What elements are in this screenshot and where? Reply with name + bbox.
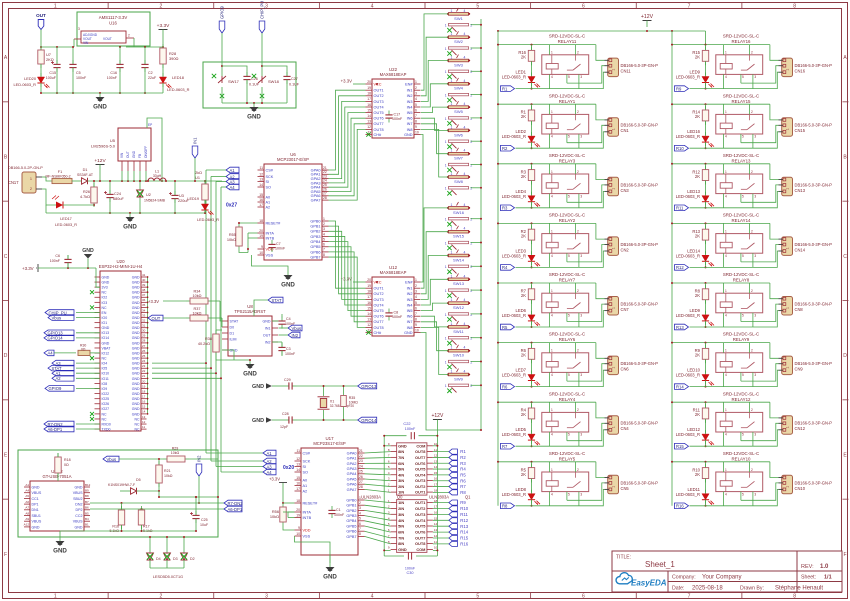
svg-text:+3.3V: +3.3V [22, 266, 34, 271]
wire RELAY14 drive [690, 266, 753, 268]
svg-text:GND: GND [398, 547, 407, 552]
svg-text:RELAY14: RELAY14 [732, 218, 752, 223]
svg-text:5: 5 [568, 135, 570, 139]
input net flag R13 [675, 324, 689, 330]
svg-text:ESP32-H2-MINI-1U-H4: ESP32-H2-MINI-1U-H4 [99, 264, 143, 269]
resistor R18 0R [55, 453, 71, 481]
svg-text:R38: R38 [205, 337, 212, 341]
+12V power symbol [641, 14, 654, 27]
svg-text:2: 2 [751, 289, 753, 293]
resistor R5 2K [521, 462, 535, 483]
svg-text:R14: R14 [460, 530, 468, 535]
svg-text:2K: 2K [695, 472, 700, 477]
svg-text:IO25: IO25 [102, 397, 110, 401]
svg-text:9: 9 [415, 125, 417, 129]
svg-text:1: 1 [54, 4, 57, 10]
resistor R16 5.1k [110, 503, 125, 533]
svg-text:32: 32 [142, 318, 146, 322]
svg-text:8: 8 [323, 253, 325, 257]
input net flag R1 [501, 86, 515, 92]
svg-text:2: 2 [577, 289, 579, 293]
wire regulator output [119, 38, 164, 48]
switch SW8 [445, 171, 473, 195]
svg-text:R29: R29 [172, 447, 179, 451]
svg-text:VBAT: VBAT [102, 346, 112, 350]
svg-text:FB: FB [138, 154, 142, 158]
svg-text:3IN: 3IN [398, 512, 404, 517]
wire SW8 to bus [471, 187, 483, 189]
svg-text:U3: U3 [179, 194, 184, 198]
svg-text:SW10: SW10 [453, 353, 465, 358]
svg-text:5: 5 [359, 517, 361, 521]
IC Q1 ULN2803A driver [388, 495, 471, 553]
svg-text:3V3: 3V3 [102, 286, 108, 290]
ground USB [53, 537, 67, 555]
svg-text:CN7: CN7 [621, 307, 630, 312]
svg-text:2: 2 [470, 218, 472, 222]
fuse F1 MF-NSMF050-2 [42, 170, 72, 184]
svg-text:34: 34 [142, 308, 146, 312]
svg-text:GPB0: GPB0 [346, 498, 356, 502]
svg-text:GPA0: GPA0 [347, 451, 357, 455]
svg-text:CC2: CC2 [75, 514, 82, 518]
net flag A6-DP1 bottom [224, 506, 243, 512]
switch SW4 [445, 78, 473, 102]
svg-text:GPB3: GPB3 [346, 514, 356, 518]
wire pullup node [158, 496, 219, 498]
net flag GPIO9 [219, 6, 225, 33]
svg-text:R17: R17 [143, 525, 150, 529]
connector CN7 DB166-5.0-3P-GN-P [605, 297, 659, 316]
LED LED7 LED-0603_R [502, 359, 540, 387]
connector USB2 GT-USB-7051A [24, 469, 91, 531]
svg-text:C16: C16 [110, 71, 117, 75]
capacitor C24 680uF [104, 180, 124, 214]
svg-text:C15: C15 [49, 71, 56, 75]
svg-text:SRD-12VDC-SL-C: SRD-12VDC-SL-C [723, 213, 759, 218]
IC U17 MCP23S17-E/SP [295, 436, 365, 555]
svg-text:2K: 2K [695, 174, 700, 179]
svg-text:11: 11 [259, 166, 263, 170]
svg-text:GPB5: GPB5 [310, 245, 320, 249]
relay RELAY14 [716, 213, 763, 254]
svg-text:GPA6: GPA6 [347, 483, 357, 487]
LED LED5 LED-0603_R [502, 419, 540, 447]
wire RELAY7 top rail [497, 282, 596, 284]
svg-text:RELAY6: RELAY6 [559, 337, 576, 342]
svg-text:6: 6 [582, 594, 585, 600]
svg-text:OUT2: OUT2 [415, 484, 426, 489]
svg-text:DN1: DN1 [32, 508, 39, 512]
wire RELAY9 to connector [741, 343, 779, 387]
net flag A6-DP1 to U20 [44, 426, 100, 432]
svg-text:IN4: IN4 [407, 105, 413, 109]
svg-text:2: 2 [577, 110, 579, 114]
svg-text:14: 14 [259, 183, 263, 187]
wire SW10 to bus [471, 361, 483, 363]
wire RELAY10 to connector [741, 462, 779, 506]
svg-text:5: 5 [742, 254, 744, 258]
svg-text:DB166-5.0-3P-GN-P: DB166-5.0-3P-GN-P [795, 123, 833, 128]
svg-text:CN5: CN5 [621, 486, 630, 491]
power +12V to relay drivers [431, 413, 443, 437]
relay RELAY1 [542, 93, 589, 134]
LED LED18 LED-0603_R [159, 64, 189, 93]
svg-text:DB166-5.0-3P-GN-P: DB166-5.0-3P-GN-P [795, 302, 833, 307]
wire U6 INTA INTB stubs [247, 233, 258, 253]
svg-text:INTB: INTB [303, 516, 312, 520]
IC U6 MCP23017-E/SP [258, 152, 329, 260]
capacitor C27 0.1UF [262, 66, 300, 103]
svg-text:17: 17 [367, 97, 371, 101]
resistor R28 390 [160, 44, 179, 68]
LED LED8 LED-0603_R [502, 479, 540, 507]
svg-text:3: 3 [580, 433, 582, 437]
svg-text:CN9: CN9 [795, 367, 804, 372]
svg-text:2025-08-18: 2025-08-18 [692, 586, 723, 592]
svg-text:40.2kΩ: 40.2kΩ [198, 342, 210, 346]
svg-text:GND: GND [132, 316, 140, 320]
wire RELAY5 to connector [567, 462, 605, 506]
svg-text:LED-0603_R: LED-0603_R [502, 313, 526, 318]
svg-text:17: 17 [259, 203, 263, 207]
svg-text:C28: C28 [282, 412, 289, 416]
svg-text:15: 15 [259, 193, 263, 197]
svg-text:AMS1117-3.3V: AMS1117-3.3V [99, 15, 128, 20]
svg-text:GND: GND [132, 357, 140, 361]
svg-text:GPA2: GPA2 [347, 462, 357, 466]
svg-text:3: 3 [415, 290, 417, 294]
svg-text:SRD-12VDC-SL-C: SRD-12VDC-SL-C [723, 451, 759, 456]
net flag GPIO13 [358, 383, 377, 389]
net flag OUT [36, 13, 46, 30]
svg-text:IO13: IO13 [102, 331, 110, 335]
svg-text:CN2: CN2 [621, 247, 630, 252]
svg-text:INTA: INTA [303, 510, 312, 514]
switch SW9 [445, 369, 473, 393]
net flag R7-DN2 bottom [224, 500, 243, 506]
net flag CHIP_PU [259, 1, 265, 33]
svg-text:U5: U5 [110, 138, 116, 143]
svg-text:5: 5 [568, 254, 570, 258]
svg-text:A12: A12 [24, 523, 30, 527]
svg-text:CN6: CN6 [621, 367, 630, 372]
svg-text:R6: R6 [460, 478, 466, 483]
svg-text:16: 16 [142, 400, 146, 404]
svg-text:100nF: 100nF [285, 352, 296, 356]
input net flag R15 [675, 443, 689, 449]
svg-text:VBUS: VBUS [73, 520, 83, 524]
wire TVS bottom [149, 536, 185, 568]
inductor L1 33uH [147, 170, 167, 183]
svg-text:DB166-5.0-3P-GN-P: DB166-5.0-3P-GN-P [621, 421, 659, 426]
svg-text:2: 2 [751, 408, 753, 412]
net flags A1-A4 to U17 [263, 450, 276, 475]
svg-text:2: 2 [470, 94, 472, 98]
svg-text:R11: R11 [460, 512, 468, 517]
LED LED6 LED-0603_R [502, 300, 540, 328]
svg-text:OUT5: OUT5 [415, 524, 426, 529]
svg-text:40: 40 [142, 278, 146, 282]
svg-text:A6: A6 [25, 500, 29, 504]
resistor R14 2K [692, 104, 708, 125]
svg-text:LED20: LED20 [24, 76, 37, 81]
svg-text:CN4: CN4 [621, 426, 630, 431]
svg-text:Q0: Q0 [397, 495, 403, 500]
wire +12V rail horizontal [497, 30, 706, 45]
svg-text:19: 19 [296, 513, 300, 517]
wire +12V right column rail [671, 31, 673, 506]
svg-text:1: 1 [445, 187, 447, 191]
svg-text:1: 1 [612, 486, 616, 488]
svg-text:10: 10 [415, 328, 419, 332]
svg-text:6: 6 [415, 306, 417, 310]
wire RELAY7 to connector [567, 283, 605, 327]
svg-text:22: 22 [142, 369, 146, 373]
wire RELAY11 relay pins [550, 45, 583, 89]
svg-text:A0: A0 [303, 478, 308, 482]
svg-text:GPB6: GPB6 [346, 530, 356, 534]
svg-text:3: 3 [754, 75, 756, 79]
svg-text:1: 1 [725, 110, 727, 114]
svg-text:RELAY3: RELAY3 [559, 158, 576, 163]
svg-text:SW6: SW6 [454, 132, 463, 137]
svg-text:OUT4: OUT4 [374, 105, 384, 109]
svg-text:C27: C27 [291, 77, 298, 81]
svg-text:VBUS: VBUS [32, 520, 42, 524]
svg-text:SS34F-AT: SS34F-AT [77, 173, 94, 177]
svg-text:R9: R9 [676, 86, 682, 91]
svg-text:18: 18 [367, 290, 371, 294]
svg-text:2: 2 [470, 241, 472, 245]
svg-text:20: 20 [296, 508, 300, 512]
svg-text:1: 1 [612, 367, 616, 369]
svg-text:SW7: SW7 [454, 156, 463, 161]
switch SW16 [445, 202, 473, 226]
wire RELAY6 top rail [497, 342, 596, 344]
svg-text:A1: A1 [267, 451, 273, 456]
svg-text:39: 39 [142, 283, 146, 287]
svg-text:GND: GND [102, 341, 110, 345]
svg-text:GND: GND [53, 548, 67, 555]
svg-text:2K: 2K [521, 472, 526, 477]
relay RELAY4 [542, 391, 589, 432]
svg-text:R34: R34 [194, 290, 201, 294]
svg-text:18: 18 [296, 499, 300, 503]
svg-text:GND: GND [132, 336, 140, 340]
svg-text:10: 10 [415, 130, 419, 134]
svg-text:OUT3: OUT3 [374, 298, 384, 302]
capacitor C16 100nF [107, 47, 124, 94]
svg-text:1: 1 [786, 247, 790, 249]
svg-text:GND: GND [132, 306, 140, 310]
svg-text:CN3: CN3 [621, 188, 630, 193]
svg-text:R37: R37 [194, 307, 201, 311]
svg-text:5IN: 5IN [398, 524, 404, 529]
svg-text:10: 10 [259, 251, 263, 255]
svg-text:SW8: SW8 [454, 179, 463, 184]
svg-text:2: 2 [751, 468, 753, 472]
svg-text:12: 12 [296, 457, 300, 461]
svg-text:390Ω: 390Ω [169, 56, 178, 61]
svg-text:CN10: CN10 [795, 486, 806, 491]
svg-text:GND: GND [132, 150, 136, 158]
svg-text:D5: D5 [136, 478, 141, 482]
svg-text:3: 3 [580, 373, 582, 377]
svg-text:LESD5D5.0CT1G: LESD5D5.0CT1G [153, 575, 183, 579]
svg-text:GND: GND [132, 362, 140, 366]
svg-text:RELAY8: RELAY8 [733, 278, 750, 283]
switch SW11 [445, 321, 473, 345]
resistor R6 2K [521, 343, 535, 364]
capacitor C4 100nF [272, 314, 296, 329]
svg-text:D4: D4 [156, 557, 161, 561]
svg-text:MCP23017-E/SP: MCP23017-E/SP [277, 157, 309, 162]
svg-text:28: 28 [142, 339, 146, 343]
svg-text:EN#: EN# [405, 280, 413, 284]
svg-text:RELAY1: RELAY1 [559, 99, 576, 104]
svg-text:GND: GND [132, 301, 140, 305]
svg-text:OUT3: OUT3 [415, 478, 426, 483]
power +3.3V to U20 [22, 264, 100, 287]
svg-text:D3: D3 [173, 557, 178, 561]
svg-text:10kΩ: 10kΩ [227, 237, 236, 242]
svg-text:27: 27 [142, 344, 146, 348]
svg-text:R8: R8 [502, 504, 508, 509]
svg-text:14: 14 [367, 114, 371, 118]
svg-text:D2: D2 [190, 557, 195, 561]
svg-text:RELAY10: RELAY10 [732, 456, 752, 461]
capacitor U3 220uF [169, 180, 189, 214]
wire RELAY16 to connector [741, 45, 779, 89]
svg-text:Vbus: Vbus [52, 315, 62, 320]
svg-text:GPIO13: GPIO13 [361, 384, 377, 389]
svg-text:OUT8: OUT8 [374, 326, 384, 330]
svg-text:CS#: CS# [266, 168, 274, 172]
svg-text:4: 4 [371, 4, 374, 10]
svg-text:GPIO14: GPIO14 [361, 418, 377, 423]
svg-text:10kΩ: 10kΩ [193, 312, 202, 316]
svg-text:Drawn By:: Drawn By: [740, 586, 764, 592]
svg-text:IO3: IO3 [102, 301, 108, 305]
net flag IN2 vertical [196, 455, 202, 504]
svg-text:SW15: SW15 [453, 234, 465, 239]
connector CN5 DB166-5.0-3P-GN-P [605, 475, 659, 494]
wire RELAY16 relay pins [724, 45, 757, 89]
input net flag R4 [501, 265, 515, 271]
wire Q1 outputs to relay flags R9-R16 [433, 503, 449, 544]
connector CN6 DB166-5.0-3P-GN-P [605, 356, 659, 375]
wire switch grounds [222, 102, 287, 104]
svg-text:41: 41 [142, 273, 146, 277]
svg-text:0x20: 0x20 [283, 465, 294, 471]
svg-text:3: 3 [415, 92, 417, 96]
svg-text:SRD-12VDC-SL-C: SRD-12VDC-SL-C [723, 34, 759, 39]
svg-text:2K: 2K [521, 114, 526, 119]
svg-text:DB166-5.0-3P-GN-P: DB166-5.0-3P-GN-P [621, 123, 659, 128]
svg-text:DP1: DP1 [32, 503, 39, 507]
svg-text:Vbus: Vbus [292, 326, 302, 331]
wire U17 INTA INTB stubs [288, 512, 295, 518]
svg-text:OUT2: OUT2 [374, 94, 384, 98]
wire RELAY6 relay pins [550, 343, 583, 387]
svg-text:4: 4 [725, 314, 727, 318]
svg-text:37: 37 [142, 293, 146, 297]
svg-text:2: 2 [577, 170, 579, 174]
svg-text:2IN: 2IN [398, 484, 404, 489]
svg-text:OUT4: OUT4 [415, 518, 426, 523]
svg-text:Vbus: Vbus [107, 457, 117, 462]
svg-text:C22: C22 [403, 421, 410, 426]
svg-text:SW14: SW14 [453, 257, 465, 262]
relay RELAY16 [716, 34, 763, 75]
svg-text:GPB4: GPB4 [310, 240, 320, 244]
svg-text:SW11: SW11 [453, 329, 464, 334]
input net flag R10 [675, 145, 689, 151]
LED LED1 LED-0603_R [502, 61, 540, 89]
resistor U1 2k [195, 171, 208, 204]
svg-text:8: 8 [415, 318, 417, 322]
svg-text:DB166-5.0-3P-GN-P: DB166-5.0-3P-GN-P [795, 63, 833, 68]
svg-text:DB166-5.0-3P-GN-P: DB166-5.0-3P-GN-P [621, 182, 659, 187]
svg-text:14: 14 [142, 410, 146, 414]
resistor R21 10k [156, 458, 173, 491]
svg-text:B5: B5 [85, 511, 89, 515]
svg-text:NC: NC [134, 417, 140, 421]
svg-text:GPA4: GPA4 [347, 472, 357, 476]
svg-text:19: 19 [259, 234, 263, 238]
IC Q0 ULN2803A driver [361, 442, 438, 500]
capacitor C26 0.1UF [222, 66, 260, 103]
svg-text:B9: B9 [85, 489, 89, 493]
svg-text:+3.3V: +3.3V [148, 299, 159, 304]
svg-text:1: 1 [725, 170, 727, 174]
svg-text:2: 2 [751, 349, 753, 353]
svg-text:Q1: Q1 [465, 495, 471, 500]
diode D5 K1NS019HW-7-F [108, 478, 160, 497]
svg-text:OUT5: OUT5 [415, 467, 426, 472]
svg-text:A2: A2 [267, 459, 273, 464]
svg-text:1: 1 [54, 594, 57, 600]
net flag STAT to U8 [254, 297, 283, 316]
svg-text:IO8: IO8 [102, 382, 108, 386]
capacitor C6 100nF [50, 254, 72, 268]
svg-text:SW18: SW18 [268, 79, 280, 84]
svg-text:1: 1 [445, 265, 447, 269]
regulator U16 AMS1117-3.3V module [74, 12, 150, 46]
resistor R34 10k [148, 290, 222, 322]
svg-text:CN11: CN11 [621, 69, 632, 74]
diode U2 1N5824-SMB [137, 180, 166, 214]
svg-text:21: 21 [359, 449, 363, 453]
wire RELAY4 relay pins [550, 402, 583, 446]
svg-text:DB166-5.0-3P-GN-P: DB166-5.0-3P-GN-P [795, 361, 833, 366]
switch SW1 [445, 8, 473, 32]
wire RELAY8 relay pins [724, 283, 757, 327]
svg-text:2K: 2K [695, 293, 700, 298]
net flag IN2 to U8 [279, 332, 301, 338]
wire RELAY9 drive [690, 386, 753, 388]
svg-text:GND: GND [102, 326, 110, 330]
svg-text:D1: D1 [230, 331, 235, 335]
svg-text:14: 14 [367, 312, 371, 316]
wire SW14 to bus [471, 265, 483, 267]
wire RELAY15 top rail [671, 103, 770, 105]
wire RELAY1 to connector [567, 104, 605, 148]
svg-text:C7: C7 [276, 242, 281, 246]
svg-text:ILIM: ILIM [230, 337, 237, 341]
connector CN13 DB166-5.0-3P-GN-P [779, 177, 833, 196]
